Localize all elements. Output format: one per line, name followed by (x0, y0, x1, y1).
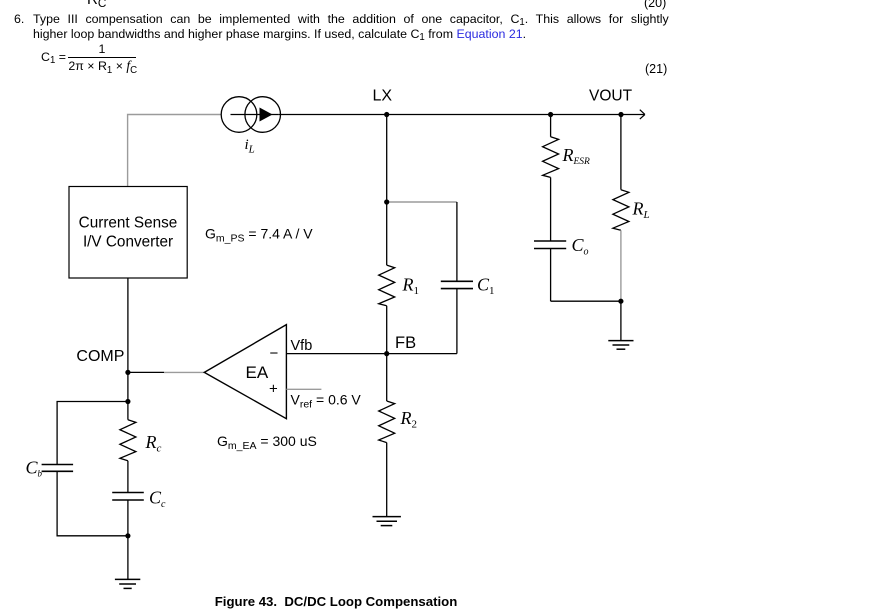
svg-text:Vfb: Vfb (291, 338, 313, 354)
junction dot Cb branch (125, 399, 130, 404)
svg-text:Rc: Rc (145, 432, 162, 455)
paragraph item 6 (14, 12, 24, 27)
capacitor Cc plates (112, 492, 144, 494)
wire gray: current source left to Current Sense box (128, 115, 221, 187)
current source U1 circles (221, 97, 257, 133)
wire: R2 to ground (386, 443, 388, 517)
svg-text:Vref = 0.6 V: Vref = 0.6 V (291, 392, 362, 411)
equation number (20) cut off (644, 0, 666, 10)
wire: RL branch top (620, 115, 622, 190)
node RC (cut-off fragment from previous equation) (87, 0, 106, 8)
ground stem bottom-left (127, 536, 129, 579)
svg-text:Current Sense: Current Sense (79, 214, 178, 231)
junction dot LX (384, 112, 389, 117)
svg-text:Gm_EA = 300 uS: Gm_EA = 300 uS (217, 433, 317, 452)
wire: LX down to R1 (386, 115, 388, 266)
svg-text:Cb: Cb (26, 457, 43, 478)
svg-text:iL: iL (245, 137, 255, 156)
ground stem right (620, 301, 622, 340)
svg-text:R2: R2 (400, 408, 418, 431)
current source internal line (231, 114, 279, 116)
ground symbol right (608, 340, 633, 342)
junction dot RL top (618, 112, 623, 117)
wire: Rc to Cc (127, 461, 129, 493)
op-amp EA triangle (204, 325, 286, 419)
svg-text:LX: LX (373, 88, 393, 105)
wire: RESR branch (550, 115, 552, 137)
wire: Cc to bottom junction (127, 500, 129, 536)
wire: COMP to EA apex (black then gray) (128, 371, 164, 373)
wire: R1 to FB (386, 306, 388, 354)
wire: bottom-right rail (551, 300, 621, 302)
capacitor Co plates (534, 240, 566, 242)
resistor RL zigzag (613, 190, 629, 231)
svg-text:+: + (269, 381, 278, 398)
junction dot bottom-left (125, 533, 130, 538)
wire: top rail LX to VOUT arrow (279, 114, 644, 116)
equation 21: C1 = 1/(2pi x R1 x fC) (41, 50, 66, 64)
resistor Rc zigzag (120, 420, 136, 461)
junction dot COMP (125, 370, 130, 375)
svg-text:R1: R1 (402, 275, 420, 298)
svg-text:RESR: RESR (562, 145, 591, 167)
svg-text:EA: EA (246, 363, 269, 382)
junction dot FB (384, 351, 389, 356)
junction dot bottom-right (618, 299, 623, 304)
resistor R2 zigzag (379, 401, 395, 443)
svg-text:FB: FB (395, 334, 416, 352)
svg-text:Cc: Cc (149, 488, 166, 511)
ground symbol under R2 (373, 516, 401, 518)
junction dot R1/C1 branch (384, 199, 389, 204)
capacitor C1 plates (441, 280, 473, 282)
resistor R1 zigzag (379, 265, 395, 306)
wire gray: LX branch to C1 top (389, 201, 457, 203)
capacitor Cb plates (42, 464, 74, 466)
ground symbol bottom-left (115, 578, 140, 580)
box: Current Sense I/V Converter (69, 187, 187, 279)
wire: C1 top vertical (456, 202, 458, 281)
svg-text:COMP: COMP (76, 348, 124, 365)
wire: FB rail EA output to C1 branch (286, 353, 457, 355)
equation number (21) (645, 62, 667, 76)
svg-text:VOUT: VOUT (589, 88, 633, 105)
wire: Co to bottom-right rail (550, 249, 552, 302)
wire gray: RL bottom (620, 230, 622, 301)
wire gray: EA + input stub (286, 388, 321, 390)
svg-text:Gm_PS = 7.4 A / V: Gm_PS = 7.4 A / V (205, 226, 313, 245)
figure caption (0, 594, 672, 609)
wire: Cb bottom to junction (57, 471, 128, 536)
wire: box bottom to COMP node down to ground (127, 278, 129, 420)
junction dot RESR top (548, 112, 553, 117)
wire: Cb branch (57, 402, 128, 465)
svg-text:Co: Co (572, 235, 589, 257)
wire: FB down to R2 (386, 354, 388, 401)
wire: RESR to Co (550, 177, 552, 241)
svg-text:RL: RL (632, 198, 650, 221)
VOUT arrowhead (640, 110, 645, 119)
resistor RESR zigzag (543, 137, 559, 178)
svg-text:−: − (270, 345, 279, 362)
wire: C1 bottom to FB rail (456, 289, 458, 354)
svg-text:C1: C1 (477, 275, 495, 298)
current source arrow (260, 108, 273, 122)
svg-text:I/V Converter: I/V Converter (83, 233, 173, 250)
